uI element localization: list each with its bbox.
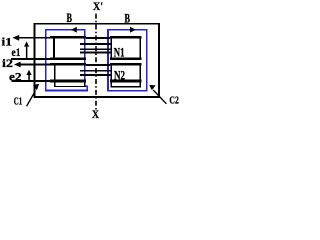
svg-text:N2: N2 [114, 69, 125, 83]
svg-text:e2: e2 [9, 69, 22, 83]
flux loop C1 (blue, left) [46, 30, 88, 91]
winding N2 inner-left cap (right box) [111, 64, 113, 88]
winding N1 top bar [11, 36, 142, 88]
arrowhead i2 [14, 62, 21, 68]
svg-text:X: X [92, 107, 99, 119]
winding N1 right cap [140, 37, 142, 60]
arrowhead i1 [12, 35, 19, 41]
winding N2 top bar [50, 63, 86, 66]
winding N2 under-loop left box [84, 82, 85, 87]
svg-text:X': X' [93, 0, 103, 13]
winding N1 bottom bar left [50, 58, 86, 61]
winding N1 left cap [53, 37, 55, 60]
arrow e1 (up) [26, 46, 28, 59]
flux arrow left (on top edge of left blue loop, pointing left) [71, 27, 77, 33]
arrow e2 (up) [28, 74, 30, 81]
axis X-X' dash-dot line [95, 14, 97, 110]
svg-text:i1: i1 [2, 34, 13, 48]
C2 pointer arrowhead [149, 85, 155, 90]
svg-text:B: B [125, 10, 131, 25]
winding N2 under-loop right box [111, 86, 142, 88]
winding N2 bottom bar right [110, 80, 142, 83]
svg-text:C2: C2 [169, 94, 179, 106]
wire i1 (top lead of N1) [16, 37, 51, 39]
C1 pointer arrowhead [33, 84, 39, 90]
wire return of N2 (under e2) [12, 80, 51, 82]
C2 pointer line [153, 90, 166, 104]
svg-text:i2: i2 [2, 56, 13, 70]
winding N2 turn lines [80, 70, 112, 71]
flux loop C2 (blue, right) [108, 30, 147, 91]
winding N1 inner-left cap (right box) [111, 37, 113, 60]
wire i2 (top lead of N2) [19, 64, 51, 66]
C1 pointer line [27, 91, 36, 106]
outer core rectangle (shield) [35, 24, 160, 97]
winding N2 bottom bar left [50, 80, 86, 83]
winding N2 right cap [140, 64, 142, 88]
winding N1 bottom bar right [110, 58, 142, 61]
svg-text:N1: N1 [114, 46, 125, 60]
wire return of N1 (under e1) [11, 58, 51, 60]
winding N1 turn lines [80, 43, 112, 45]
svg-text:C1: C1 [14, 95, 22, 107]
flux arrow right (on top edge of right blue loop, pointing right) [130, 27, 136, 33]
svg-text:B: B [67, 10, 73, 25]
winding N2 left cap [54, 64, 56, 88]
